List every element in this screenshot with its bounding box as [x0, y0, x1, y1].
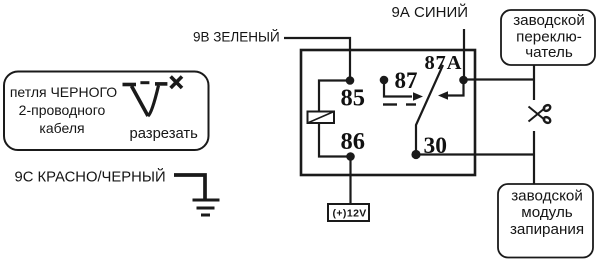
note text: loop of black 2-wire cable	[10, 84, 117, 136]
svg-text:(+)12V: (+)12V	[333, 207, 367, 219]
battery +12V box	[328, 204, 369, 221]
relay switch blade 30 to 87A	[416, 65, 443, 155]
wire pin 86 to +12V source	[349, 157, 351, 205]
svg-text:заводской: заводской	[513, 12, 585, 29]
wire loop V symbol with cut mark	[123, 77, 183, 117]
svg-text:85: 85	[341, 85, 366, 112]
wire 9B green to relay pin 85	[284, 38, 350, 80]
svg-text:модуль: модуль	[521, 204, 573, 221]
note box: black wire loop	[4, 72, 209, 151]
wire pin 30 to factory lock module	[416, 153, 534, 155]
svg-text:9В ЗЕЛЕНЫЙ: 9В ЗЕЛЕНЫЙ	[193, 30, 280, 45]
svg-text:разрезать: разрезать	[130, 126, 199, 142]
svg-text:87: 87	[395, 68, 418, 93]
svg-text:запирания: запирания	[510, 221, 584, 238]
wire coil to pin 86	[319, 123, 351, 157]
wire 9A blue down to relay pin 87A	[463, 29, 465, 80]
svg-text:9С КРАСНО/ЧЕРНЫЙ: 9С КРАСНО/ЧЕРНЫЙ	[15, 168, 166, 186]
wire 9C to ground	[174, 175, 205, 199]
junction pin 85	[346, 76, 355, 85]
wire pin 87A to factory switch	[464, 78, 535, 80]
wire factory switch down (upper cut segment)	[533, 65, 535, 100]
wire to lock module (lower cut segment)	[533, 131, 535, 184]
junction pin 30	[411, 150, 420, 159]
dashed mark under pin 87	[383, 103, 416, 105]
wire pin 87 stub with arrow	[384, 80, 423, 101]
svg-text:петля ЧЕРНОГО: петля ЧЕРНОГО	[10, 84, 117, 100]
scissors cut symbol on factory wire	[529, 104, 552, 124]
relay coil L1	[308, 112, 335, 124]
svg-text:2-проводного: 2-проводного	[19, 102, 106, 118]
factory lock module text	[510, 188, 584, 238]
svg-text:кабеля: кабеля	[39, 120, 84, 136]
factory lock module box	[498, 184, 593, 258]
wire pin 87A stub with arrow	[438, 80, 464, 100]
junction pin 87A	[459, 76, 468, 85]
svg-text:86: 86	[341, 128, 366, 155]
ground symbol	[193, 200, 220, 215]
factory switch box	[501, 10, 595, 65]
wire pin 85 to coil	[319, 81, 350, 113]
factory switch text	[513, 12, 585, 61]
svg-text:9А СИНИЙ: 9А СИНИЙ	[392, 3, 469, 21]
svg-text:чатель: чатель	[525, 44, 573, 61]
svg-text:заводской: заводской	[511, 188, 583, 205]
svg-text:переклю-: переклю-	[516, 28, 582, 45]
relay K1 body	[301, 50, 475, 175]
junction pin 86	[346, 152, 355, 161]
junction pin 87	[380, 76, 389, 85]
svg-text:87А: 87А	[425, 52, 463, 74]
